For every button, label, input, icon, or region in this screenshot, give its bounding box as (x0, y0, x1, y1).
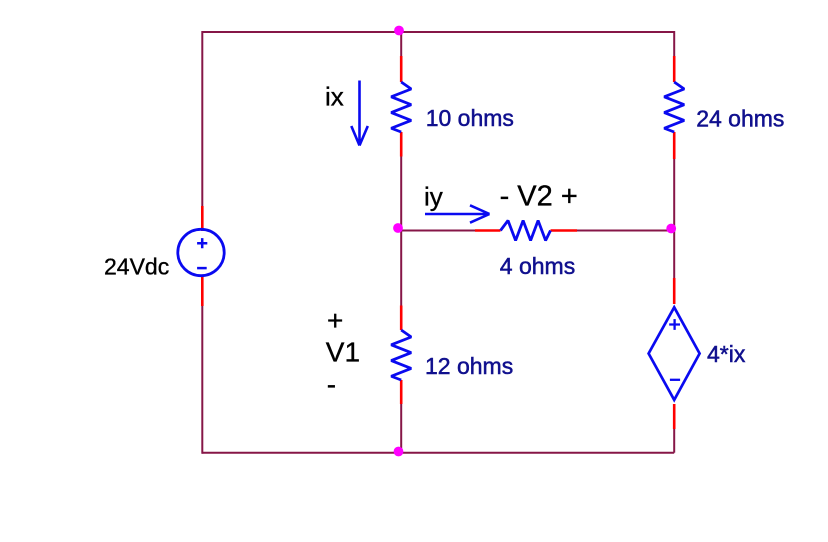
lead V source bottom (201, 277, 204, 307)
wire mid horizontal left (401, 230, 475, 232)
lead R 4 ohms right (551, 229, 578, 232)
svg-text:4*ix: 4*ix (707, 341, 746, 367)
lead R 10 ohms top (400, 56, 403, 82)
lead R 12 ohms top (400, 306, 403, 331)
wire top (202, 31, 674, 33)
wire right upper (673, 31, 675, 56)
lead dep source bottom (673, 404, 676, 429)
wire right mid (673, 159, 675, 278)
current arrow iy (425, 205, 490, 222)
current arrow ix (351, 81, 368, 146)
wire left lower (201, 306, 203, 454)
resistor R 4 ohms body (horizontal) (501, 221, 551, 241)
svg-text:+: + (327, 305, 343, 336)
wire mid horizontal right (577, 230, 674, 232)
lead R 10 ohms bottom (400, 132, 403, 157)
svg-text:ix: ix (325, 82, 344, 112)
lead R 12 ohms bottom (400, 380, 403, 404)
voltage source minus sign (197, 267, 207, 270)
dependent source diamond 4*ix (649, 307, 700, 400)
wire bottom (202, 452, 674, 454)
resistor R 12 ohms body (391, 330, 411, 380)
voltage source plus sign (197, 238, 207, 248)
resistor R 24 ohms body (664, 82, 684, 132)
voltage source V 24Vdc circle (178, 229, 224, 275)
svg-text:10 ohms: 10 ohms (426, 105, 514, 131)
lead R 24 ohms top (673, 56, 676, 82)
dependent source plus sign (669, 319, 680, 330)
wire mid vertical top stub (400, 31, 402, 56)
svg-text:24Vdc: 24Vdc (104, 254, 169, 280)
svg-text:24 ohms: 24 ohms (696, 106, 784, 132)
svg-text:-: - (327, 369, 336, 400)
lead V source top (201, 206, 204, 231)
junction dot bottom (394, 447, 404, 457)
junction dot top (394, 26, 404, 36)
lead R 4 ohms left (475, 229, 501, 232)
svg-text:V1: V1 (326, 336, 360, 367)
wire left upper (201, 31, 203, 206)
dependent source minus sign (670, 379, 680, 381)
svg-text:iy: iy (424, 181, 443, 211)
svg-text:- V2 +: - V2 + (500, 181, 578, 213)
wire right lower (673, 429, 675, 453)
svg-text:4 ohms: 4 ohms (500, 253, 575, 279)
svg-text:12 ohms: 12 ohms (425, 353, 513, 379)
junction dot middle left (393, 223, 403, 233)
resistor R 10 ohms body (391, 82, 411, 132)
lead dep source top (673, 278, 676, 304)
wire mid vertical between resistors (400, 157, 402, 306)
junction dot middle right (666, 224, 676, 234)
lead R 24 ohms bottom (673, 132, 676, 159)
wire mid vertical bottom stub (400, 404, 402, 453)
